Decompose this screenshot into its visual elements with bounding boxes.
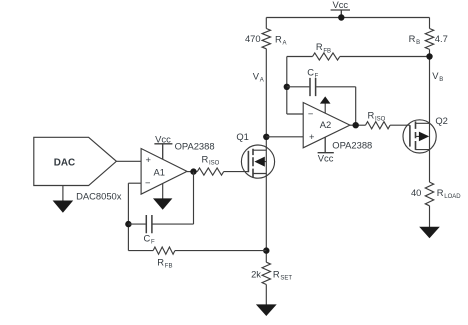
wire: R_LOAD to ground	[429, 206, 431, 227]
svg-text:4.7: 4.7	[435, 33, 448, 44]
resistor R_ISO (A1)	[197, 168, 223, 175]
svg-text:Q1: Q1	[236, 131, 249, 142]
svg-text:Vcc: Vcc	[155, 134, 171, 145]
transistor Q1	[241, 145, 274, 178]
svg-text:OPA2388: OPA2388	[332, 139, 372, 150]
supply arrow (A2, up)	[320, 96, 331, 103]
svg-text:A1: A1	[154, 167, 165, 178]
transistor Q2	[403, 120, 436, 153]
wire: top Vcc rail	[266, 17, 429, 19]
svg-text:−: −	[145, 177, 151, 188]
wire: A2 positive supply stub	[324, 103, 326, 113]
svg-text:470: 470	[245, 33, 261, 44]
resistor R_SET	[262, 262, 270, 284]
svg-text:2k: 2k	[251, 269, 261, 280]
svg-text:Vcc: Vcc	[332, 0, 348, 10]
resistor R_LOAD	[425, 182, 433, 206]
ground (A1 supply arrow)	[153, 198, 172, 209]
power Vcc (A2)	[318, 137, 334, 163]
svg-text:OPA2388: OPA2388	[175, 141, 215, 152]
resistor R_FB (A1)	[128, 247, 266, 254]
ground (DAC)	[53, 201, 74, 213]
wire: rail to R_A	[265, 18, 267, 29]
ground (R_SET)	[256, 304, 277, 316]
resistor R_FB (A2)	[287, 53, 430, 60]
wire: A2 feedback left vertical	[286, 57, 288, 115]
wire: rail to R_B	[429, 18, 431, 29]
op-amp A2	[303, 103, 350, 148]
wire: A1 output	[187, 171, 197, 173]
wire: R_ISO to Q1 gate	[224, 171, 249, 173]
wire: R_A down through Q1 drain to R_SET node	[265, 49, 267, 262]
DAC block	[34, 137, 117, 185]
svg-text:+: +	[145, 154, 151, 165]
wire: Q1 drain node to A2 + input	[266, 136, 303, 138]
resistor R_B	[425, 29, 433, 50]
svg-text:A2: A2	[320, 119, 331, 130]
wire: A2 inverting input	[287, 113, 303, 115]
wire: DAC ground stub	[62, 186, 64, 202]
resistor R_A	[262, 29, 270, 49]
node: R_FB / V_B junction	[426, 53, 432, 59]
svg-text:40: 40	[411, 187, 421, 198]
svg-text:Vcc: Vcc	[318, 153, 334, 164]
power Vcc (A1)	[154, 134, 172, 160]
op-amp A1	[141, 149, 187, 195]
node: Q1 drain junction	[263, 134, 269, 140]
wire: R_ISO to Q2 gate	[390, 124, 410, 126]
node: C_F junction (A1)	[125, 221, 131, 227]
wire: A1 inverting input	[128, 182, 141, 184]
svg-text:DAC8050x: DAC8050x	[76, 190, 122, 201]
wire: A1 negative supply stub	[162, 184, 164, 200]
power Vcc (top)	[331, 0, 350, 17]
svg-text:+: +	[309, 131, 315, 142]
wire: A1 feedback left vertical	[127, 183, 129, 250]
wire: R_B down through Q2 to R_LOAD	[429, 49, 431, 182]
wire: A2 output	[350, 124, 366, 126]
node: A1 output junction	[190, 168, 196, 174]
ground (R_LOAD)	[419, 227, 440, 239]
node: C_F junction (A2)	[284, 84, 290, 90]
svg-text:DAC: DAC	[54, 157, 75, 168]
svg-text:−: −	[308, 108, 314, 119]
wire: DAC output to A1 + input	[116, 160, 141, 162]
capacitor C_F (A2)	[287, 78, 356, 125]
svg-text:Q2: Q2	[435, 115, 448, 126]
node: junction of Vcc stub and rail	[338, 14, 344, 20]
resistor R_ISO (A2)	[366, 122, 391, 129]
node: R_SET / R_FB junction	[263, 247, 269, 253]
node: A2 output junction	[353, 122, 359, 128]
wire: R_SET to ground	[265, 285, 267, 306]
capacitor C_F (A1)	[128, 172, 193, 234]
